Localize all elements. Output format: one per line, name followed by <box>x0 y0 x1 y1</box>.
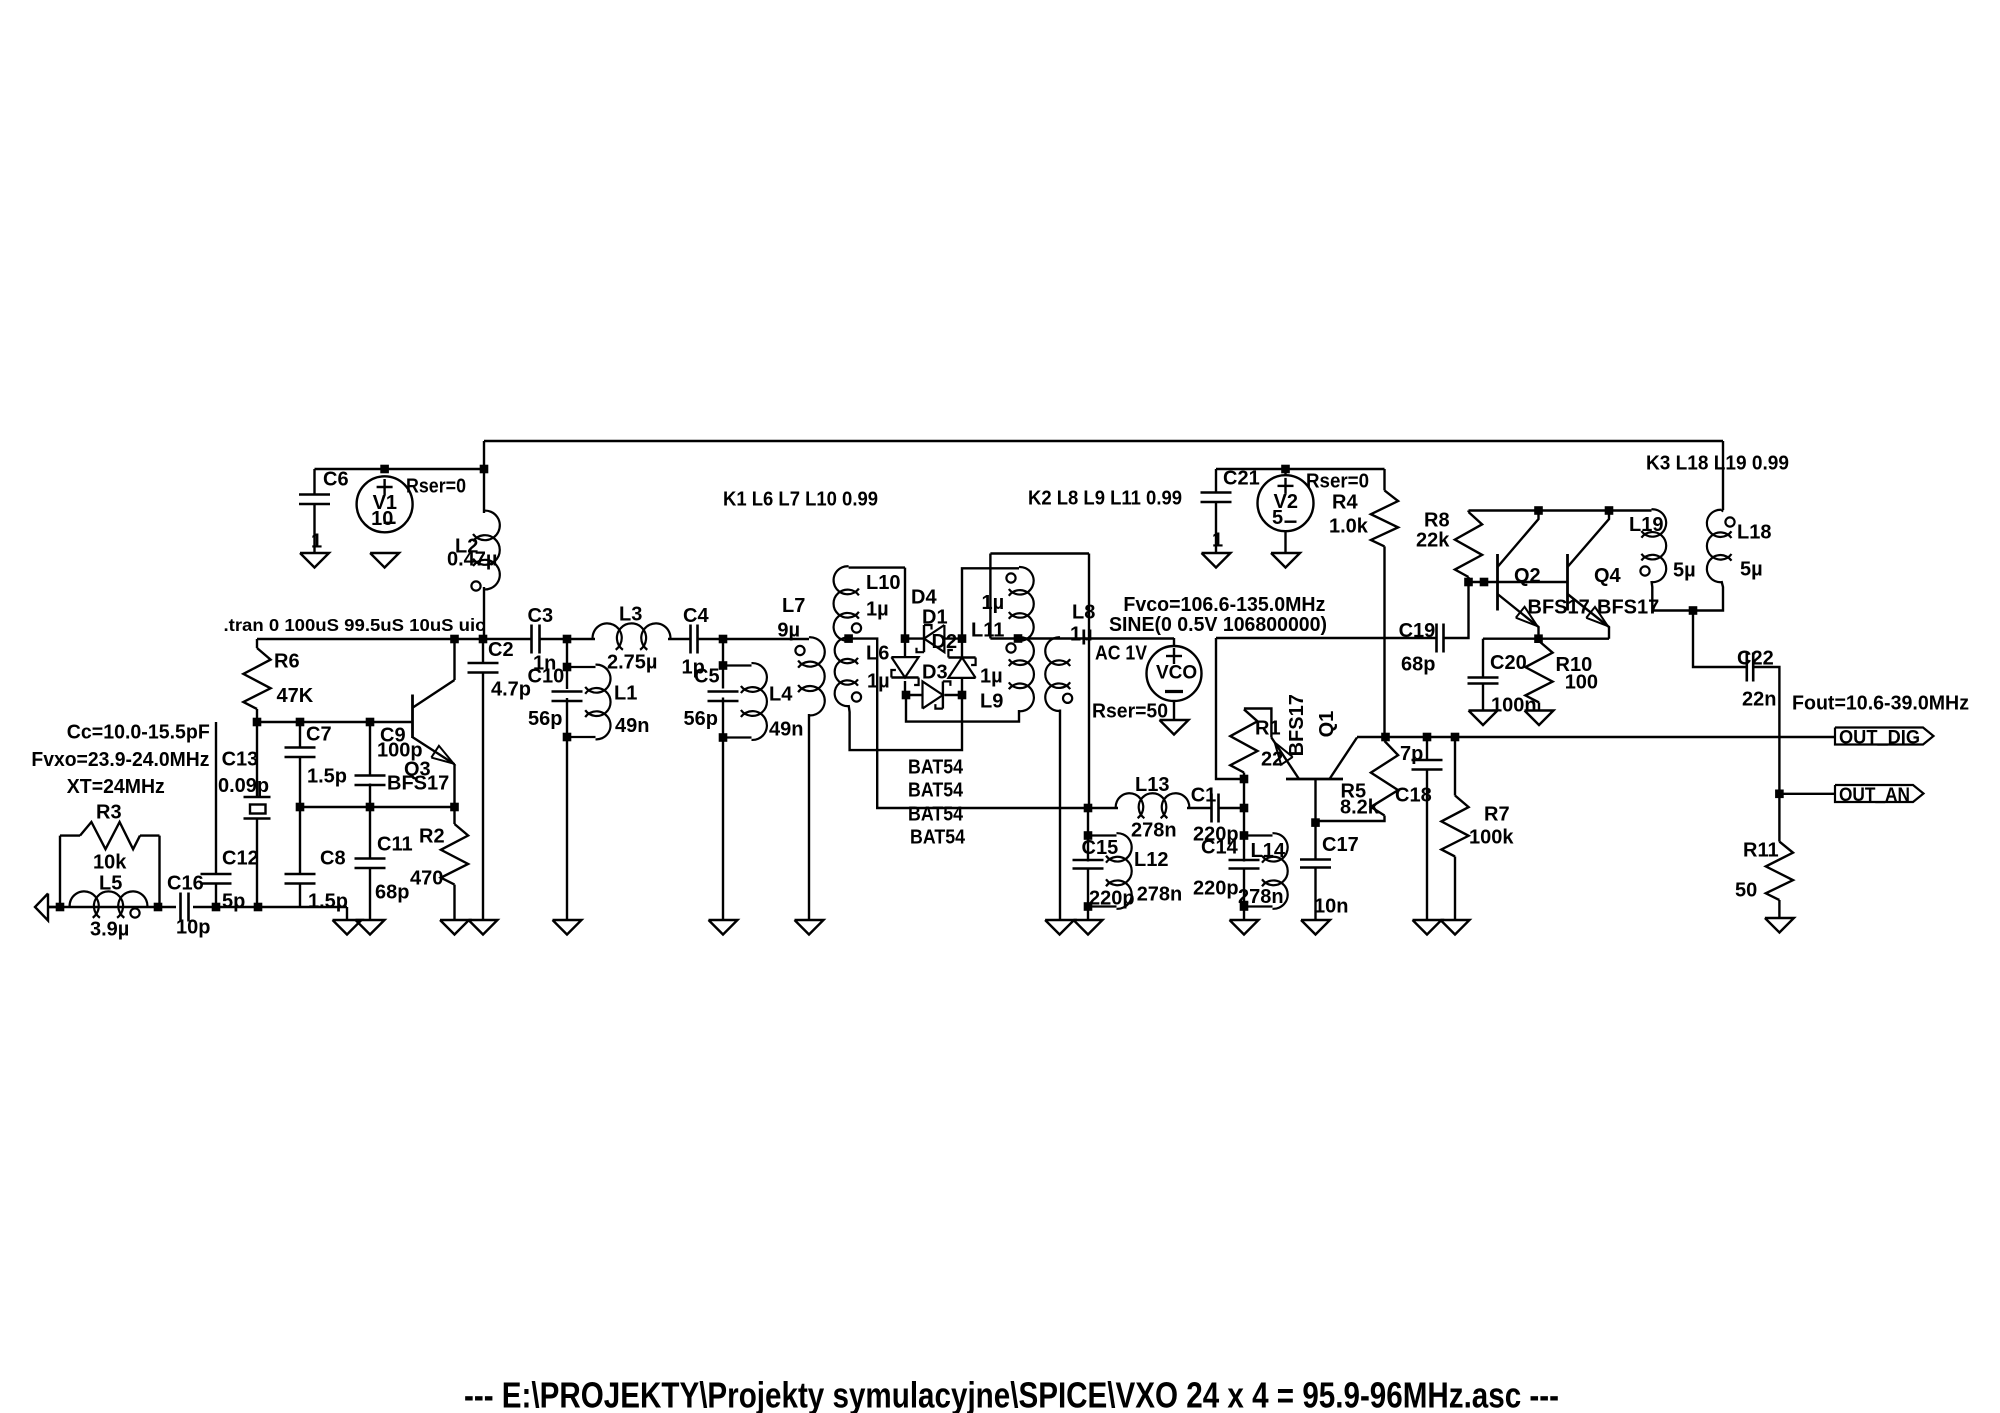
label 22 <box>1261 748 1283 770</box>
svg-text:Rser=50: Rser=50 <box>1092 700 1168 722</box>
node ring D <box>958 691 967 700</box>
wire bottom rail right <box>193 906 347 908</box>
svg-text:K2 L8 L9 L11 0.99: K2 L8 L9 L11 0.99 <box>1028 487 1182 509</box>
voltage source V2 name <box>1274 491 1298 513</box>
wire R5 top lead <box>1383 737 1385 741</box>
svg-text:1µ: 1µ <box>867 670 890 692</box>
label .tran <box>224 615 486 635</box>
node L1 top <box>563 663 572 672</box>
label 1u L9 <box>980 665 1003 687</box>
capacitor C16 plates <box>181 893 189 922</box>
wire R8 top stub <box>1467 511 1469 513</box>
wire R2 lower lead <box>453 885 455 920</box>
svg-text:10p: 10p <box>176 916 210 938</box>
svg-text:BAT54: BAT54 <box>908 779 964 801</box>
wire ring left edge upper <box>904 639 906 658</box>
label 1 C6 <box>311 530 322 552</box>
label C8 <box>320 847 346 869</box>
label L3 <box>619 603 642 625</box>
label R3 <box>96 801 122 823</box>
label C11 <box>377 833 413 855</box>
capacitor C19 plates <box>1437 624 1444 653</box>
label 1p <box>682 656 705 678</box>
label R4 <box>1332 491 1358 513</box>
svg-text:C6: C6 <box>323 468 349 490</box>
svg-text:XT=24MHz: XT=24MHz <box>67 776 165 798</box>
wire ring C to D3 <box>906 694 924 696</box>
wire R2 upper lead <box>453 807 455 824</box>
label 1u L6 <box>867 670 890 692</box>
node Q3 collector rail <box>450 635 459 644</box>
svg-text:L9: L9 <box>980 690 1003 712</box>
label C1 <box>1191 784 1217 806</box>
wire C5-L4 top tee <box>722 639 724 666</box>
svg-text:9µ: 9µ <box>777 620 800 642</box>
svg-text:L1: L1 <box>614 682 637 704</box>
capacitor C18 plates <box>1412 760 1443 770</box>
label K3 <box>1646 452 1789 474</box>
svg-text:R8: R8 <box>1424 509 1450 531</box>
wire crystal upper lead <box>256 722 258 796</box>
node emitter C11 <box>366 803 375 812</box>
label 1n <box>533 652 556 674</box>
resistor R2 <box>441 824 468 885</box>
wire mid rail C4-L7 <box>698 638 810 640</box>
label 50 <box>1735 879 1757 901</box>
label 278n L14 <box>1238 886 1284 908</box>
svg-text:C7: C7 <box>306 723 332 745</box>
resistor R1 <box>1230 709 1257 772</box>
svg-text:C11: C11 <box>377 833 413 855</box>
label Fvxo <box>31 749 209 771</box>
node L1 bottom <box>563 733 572 742</box>
label Q3 <box>404 758 431 780</box>
label L4 <box>769 683 793 705</box>
svg-text:8.2k: 8.2k <box>1340 797 1380 819</box>
svg-text:C2: C2 <box>488 639 514 661</box>
wire L2 column lower <box>483 587 485 639</box>
label C21 <box>1223 467 1260 489</box>
svg-text:BAT54: BAT54 <box>908 756 964 778</box>
wire ring A to D1 <box>905 637 924 639</box>
label 22k <box>1416 529 1450 551</box>
wire C15 upper lead <box>1087 836 1089 862</box>
wire R11 bottom lead <box>1778 900 1780 918</box>
label 4.7p <box>491 678 531 700</box>
wire L13 left lead <box>1088 807 1118 809</box>
wire R1 bottom lead <box>1243 773 1245 780</box>
label C15 <box>1082 837 1119 859</box>
diode D1 <box>917 625 945 652</box>
capacitor C10 plates <box>552 692 583 702</box>
node L5 right <box>154 903 163 912</box>
wire C12 lower lead <box>215 884 217 908</box>
svg-text:3.9µ: 3.9µ <box>90 918 129 940</box>
label 2.75u <box>607 651 657 673</box>
svg-text:R2: R2 <box>419 825 445 847</box>
svg-text:--- E:\PROJEKTY\Projekty symu: --- E:\PROJEKTY\Projekty symulacyjne\SPI… <box>464 1374 1559 1413</box>
svg-text:5µ: 5µ <box>1673 559 1696 581</box>
svg-text:278n: 278n <box>1131 819 1177 841</box>
wire C7 upper lead <box>299 722 301 748</box>
svg-text:D2: D2 <box>932 631 958 653</box>
svg-text:K1 L6 L7 L10 0.99: K1 L6 L7 L10 0.99 <box>723 488 878 510</box>
svg-text:SINE(0 0.5V 106800000): SINE(0 0.5V 106800000) <box>1109 614 1327 636</box>
ground R7 <box>1441 920 1470 935</box>
svg-text:C16: C16 <box>167 872 204 894</box>
svg-text:C18: C18 <box>1395 784 1432 806</box>
svg-text:22n: 22n <box>1742 688 1776 710</box>
svg-text:1µ: 1µ <box>866 598 889 620</box>
port OUT_AN flag <box>1835 785 1924 802</box>
wire C22 left route <box>1693 611 1747 668</box>
label 100 <box>1565 671 1598 693</box>
inductor L14 <box>1244 833 1288 909</box>
wire emitter row Q2Q4 <box>1483 638 1609 640</box>
wire C19 right lead <box>1444 582 1469 638</box>
label 49n L1 <box>615 715 649 737</box>
wire VCO bottom lead <box>1173 701 1175 720</box>
ground C2 <box>469 920 498 935</box>
wire mid rail L3-C4 <box>668 638 691 640</box>
wire C10-L1 top tee <box>566 639 568 667</box>
label Q1 <box>1316 711 1338 738</box>
svg-text:220p: 220p <box>1089 887 1135 909</box>
svg-text:L7: L7 <box>782 595 805 617</box>
inductor L8 <box>1045 637 1072 711</box>
svg-text:68p: 68p <box>375 881 409 903</box>
node L13 left <box>1084 804 1093 813</box>
svg-text:100: 100 <box>1565 671 1598 693</box>
wire IF takeoff riser <box>989 554 991 639</box>
voltage source V2 <box>1258 475 1314 531</box>
label Fout <box>1792 692 1969 714</box>
inductor L19 <box>1640 509 1666 582</box>
wire V2 bottom lead <box>1284 531 1286 553</box>
label Rser=0 V1 <box>406 475 466 497</box>
label C2 <box>488 639 514 661</box>
svg-text:D3: D3 <box>922 661 948 683</box>
wire R11 top lead <box>1778 794 1780 842</box>
svg-text:L18: L18 <box>1737 521 1771 543</box>
svg-text:L10: L10 <box>866 572 900 594</box>
svg-text:220p: 220p <box>1193 877 1239 899</box>
ground C18 <box>1413 920 1442 935</box>
label 68p <box>375 881 409 903</box>
wire D1 to ring B <box>944 637 962 639</box>
node V1 top <box>380 465 389 474</box>
wire L6 bottom to ring D <box>849 699 962 750</box>
svg-text:C5: C5 <box>694 665 720 687</box>
wire L10 top lead <box>849 566 905 568</box>
wire C2 upper lead <box>482 639 484 663</box>
wire L4 tank to gnd <box>722 738 724 921</box>
wire L8 bottom column <box>1059 710 1061 921</box>
label 1u L10 <box>866 598 889 620</box>
wire IF takeoff drop <box>1088 554 1090 809</box>
label BFS17 Q2 <box>1528 596 1590 618</box>
wire Q2 collector rail top <box>1469 509 1652 511</box>
capacitor C20 plates <box>1468 678 1499 684</box>
wire R1 node column <box>1243 779 1245 836</box>
svg-text:0.47µ: 0.47µ <box>447 548 497 570</box>
inductor L5 <box>70 891 148 917</box>
svg-text:Fout=10.6-39.0MHz: Fout=10.6-39.0MHz <box>1792 692 1969 714</box>
wire C14 upper lead <box>1243 836 1245 862</box>
svg-text:Q1: Q1 <box>1316 711 1338 738</box>
label 0.47u <box>447 548 497 570</box>
wire C15 gnd lead <box>1087 907 1089 921</box>
svg-text:C15: C15 <box>1082 837 1119 859</box>
label L13 <box>1135 774 1169 796</box>
label 9u <box>777 620 800 642</box>
node emitter C8 <box>296 803 305 812</box>
label 10k <box>93 851 127 873</box>
resistor R3 <box>80 822 140 849</box>
label Fvco <box>1123 594 1325 616</box>
node base rail C9 <box>366 718 375 727</box>
node crystal bottom <box>254 903 263 912</box>
capacitor C2 plates <box>468 663 499 673</box>
wire R7 upper lead <box>1454 737 1456 796</box>
svg-text:C10: C10 <box>528 665 565 687</box>
svg-text:AC 1V: AC 1V <box>1095 642 1148 664</box>
inductor L18 <box>1707 510 1735 582</box>
svg-text:.tran 0 100uS 99.5uS 10uS uic: .tran 0 100uS 99.5uS 10uS uic <box>224 615 486 635</box>
ground R2 <box>440 920 469 935</box>
wire C14 gnd lead <box>1243 907 1245 921</box>
node mixer center tap <box>844 634 853 643</box>
node C14 bottom <box>1240 902 1249 911</box>
wire C18 upper lead <box>1426 737 1428 761</box>
wire L2 column upper <box>483 441 485 513</box>
wire bottom rail left <box>48 906 176 908</box>
wire R1 top jog <box>1244 709 1272 738</box>
ground C21 <box>1202 553 1231 568</box>
svg-text:L11: L11 <box>971 619 1004 641</box>
capacitor C17 plates <box>1300 860 1331 868</box>
wire R3 left vertical <box>59 836 61 907</box>
label XT <box>67 776 165 798</box>
label 5u L19 <box>1673 559 1696 581</box>
label Rser=50 <box>1092 700 1168 722</box>
wire IF takeoff rail <box>990 552 1089 554</box>
label L7 <box>782 595 805 617</box>
wire L18 corner <box>1722 510 1724 512</box>
svg-text:1µ: 1µ <box>1070 623 1093 645</box>
node ring B <box>958 634 967 643</box>
svg-text:49n: 49n <box>769 718 803 740</box>
svg-text:L4: L4 <box>769 683 793 705</box>
inductor L11 <box>1006 567 1033 641</box>
inductor L7 <box>795 637 824 715</box>
label 278n L12 <box>1137 883 1183 905</box>
ground VCO <box>1160 720 1189 735</box>
node R1 bottom <box>1240 775 1249 784</box>
label 220p C14 <box>1193 877 1239 899</box>
svg-text:C12: C12 <box>222 847 259 869</box>
label 10n <box>1314 895 1348 917</box>
node Q4 collector <box>1605 506 1614 515</box>
capacitor C8 plates <box>285 874 316 884</box>
wire R10 top lead <box>1538 639 1540 641</box>
resistor R11 <box>1766 842 1793 900</box>
wire R6 column <box>256 639 258 648</box>
label BFS17 Q4 <box>1597 596 1659 618</box>
svg-text:C19: C19 <box>1399 620 1436 642</box>
wire C21 upper lead <box>1215 469 1217 493</box>
wire C9 lower lead <box>369 784 371 808</box>
label Q2 <box>1514 565 1541 587</box>
label L8 <box>1072 601 1095 623</box>
wire L18 bottom route <box>1693 581 1723 611</box>
svg-text:R6: R6 <box>274 650 300 672</box>
wire C15 lower lead <box>1087 870 1089 907</box>
svg-text:C21: C21 <box>1223 467 1260 489</box>
label C5 <box>694 665 720 687</box>
label 1 C21 <box>1212 529 1223 551</box>
svg-text:R1: R1 <box>1255 717 1281 739</box>
voltage source V1 <box>357 476 413 532</box>
ground C11 <box>356 920 385 935</box>
label C14 <box>1201 836 1239 858</box>
ground R11 <box>1765 918 1794 933</box>
label C16 <box>167 872 204 894</box>
inductor L9 <box>1006 637 1034 711</box>
label C20 <box>1490 652 1527 674</box>
transistor Q1 <box>1271 738 1357 780</box>
label BAT54 D2 <box>908 779 964 801</box>
crystal C13 <box>244 797 271 819</box>
svg-text:1: 1 <box>1212 529 1223 551</box>
node ring C <box>902 691 911 700</box>
svg-text:D4: D4 <box>911 586 937 608</box>
label 47K <box>277 685 314 707</box>
label D3 <box>922 661 948 683</box>
wire ring right edge upper <box>961 639 963 657</box>
title <box>464 1374 1559 1413</box>
capacitor C4 plates <box>691 625 698 654</box>
wire base rail <box>257 721 413 723</box>
inductor L4 <box>723 663 767 740</box>
wire C22 right route <box>1753 667 1779 794</box>
svg-text:VCO: VCO <box>1156 663 1197 684</box>
capacitor C15 plates <box>1073 860 1104 869</box>
node ring A <box>901 634 910 643</box>
node C15 bottom <box>1084 902 1093 911</box>
label L9 <box>980 690 1003 712</box>
svg-text:22k: 22k <box>1416 529 1450 551</box>
wire C9 upper lead <box>369 722 371 777</box>
label L6 <box>866 642 889 664</box>
svg-text:R3: R3 <box>96 801 122 823</box>
label Q4 <box>1594 565 1622 587</box>
svg-text:R4: R4 <box>1332 491 1358 513</box>
wire R6 to base rail <box>256 709 258 722</box>
svg-text:L3: L3 <box>619 603 642 625</box>
wire C10 lower lead <box>566 698 568 737</box>
svg-text:1µ: 1µ <box>982 592 1005 614</box>
node C4-C5 tap <box>719 635 728 644</box>
wire C5 upper lead <box>722 666 724 689</box>
node V2 top <box>1281 465 1290 474</box>
wire C14 lower lead <box>1243 870 1245 907</box>
diode D4 <box>891 657 918 685</box>
label D2 <box>932 631 958 653</box>
svg-text:47K: 47K <box>277 685 314 707</box>
svg-text:22: 22 <box>1261 748 1283 770</box>
label 49n L4 <box>769 718 803 740</box>
svg-text:C14: C14 <box>1201 836 1239 858</box>
wire C21 lower lead <box>1215 502 1217 553</box>
node ring E L11-L9 <box>1014 634 1023 643</box>
ground crystal rail <box>333 920 362 935</box>
svg-text:4.7p: 4.7p <box>491 678 531 700</box>
wire C11 upper lead <box>369 807 371 860</box>
capacitor C1 plates <box>1212 794 1219 823</box>
svg-text:1.0k: 1.0k <box>1329 515 1369 537</box>
label C13 <box>222 748 259 770</box>
svg-text:K3 L18 L19 0.99: K3 L18 L19 0.99 <box>1646 452 1789 474</box>
wire C7-C8 link <box>299 756 301 875</box>
resistor R5 <box>1371 741 1398 816</box>
wire Q1 base lead <box>1314 779 1316 823</box>
wire crystal lower lead <box>256 819 258 907</box>
label 220p C15 <box>1089 887 1135 909</box>
wire V2 row <box>1216 468 1385 470</box>
label L2 <box>455 535 478 557</box>
label R6 <box>274 650 300 672</box>
label L12 <box>1134 849 1168 871</box>
wire C2 lower lead <box>482 673 484 921</box>
wire R3 right vertical <box>158 836 160 907</box>
svg-text:2.75µ: 2.75µ <box>607 651 657 673</box>
resistor R6 <box>243 648 270 709</box>
ground R10 <box>1525 711 1554 726</box>
svg-text:L13: L13 <box>1135 774 1169 796</box>
svg-text:BFS17: BFS17 <box>1597 596 1659 618</box>
port input arrow <box>35 894 48 921</box>
label BAT54 D4 <box>910 826 966 848</box>
ground C15 <box>1074 920 1103 935</box>
svg-text:56p: 56p <box>528 708 562 730</box>
svg-text:470: 470 <box>410 867 443 889</box>
capacitor C11 plates <box>355 859 386 869</box>
svg-text:L14: L14 <box>1251 840 1286 862</box>
svg-text:Fvco=106.6-135.0MHz: Fvco=106.6-135.0MHz <box>1123 594 1325 616</box>
label L18 <box>1737 521 1771 543</box>
svg-text:R11: R11 <box>1743 839 1779 861</box>
node C14 top <box>1240 831 1249 840</box>
wire R4 long lead <box>1383 546 1385 737</box>
wire ring right edge lower <box>961 678 963 695</box>
label L14 <box>1251 840 1286 862</box>
resistor R7 <box>1441 796 1468 857</box>
resistor R4 <box>1371 490 1398 546</box>
svg-text:Q2: Q2 <box>1514 565 1541 587</box>
wire input port stub <box>48 906 60 908</box>
inductor L12 <box>1088 833 1132 909</box>
label L1 <box>614 682 637 704</box>
svg-text:1: 1 <box>311 530 322 552</box>
label 1u L11 <box>982 592 1005 614</box>
wire VCO top lead <box>1173 638 1175 646</box>
node L4 top <box>719 661 728 670</box>
transistor Q4 <box>1568 512 1610 639</box>
label C4 <box>683 605 709 627</box>
ground C14 <box>1230 920 1259 935</box>
wire R8 bottom stub <box>1467 577 1469 582</box>
